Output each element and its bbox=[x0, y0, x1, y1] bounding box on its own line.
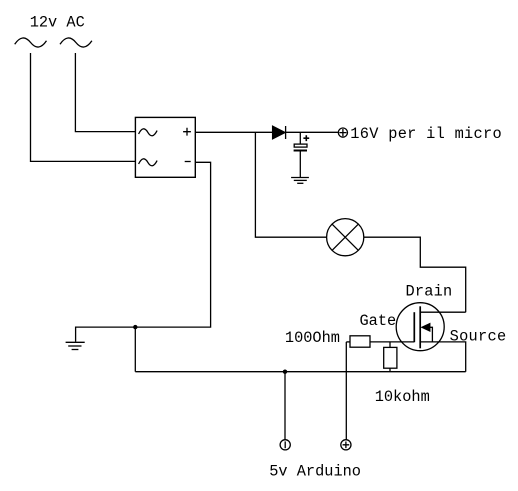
ground (left) bbox=[66, 342, 85, 349]
wire AC1 to bridge lower input bbox=[31, 53, 136, 161]
node 16V circled plus bbox=[338, 128, 347, 137]
junction dot bottom rail bbox=[283, 370, 287, 374]
junction dot ground rail bbox=[133, 325, 137, 329]
label 16V per il micro bbox=[350, 125, 502, 143]
bridge rectifier BR1 bbox=[135, 117, 195, 177]
label 10kohm bbox=[375, 388, 430, 406]
wire bottom rail bbox=[135, 371, 465, 373]
wire junction down to 5v ground pin bbox=[284, 372, 286, 440]
wire diode to 16V node bbox=[286, 131, 339, 133]
svg-text:5v Arduino: 5v Arduino bbox=[269, 463, 361, 481]
node 5v plus pin bbox=[341, 440, 351, 450]
lamp LA1 bbox=[327, 219, 364, 256]
label Drain bbox=[406, 283, 453, 301]
svg-text:Source: Source bbox=[450, 328, 507, 346]
svg-text:12v AC: 12v AC bbox=[30, 13, 85, 31]
diode D1 bbox=[273, 126, 286, 139]
node 5v ground pin bbox=[280, 440, 290, 450]
ground (capacitor) bbox=[291, 178, 309, 184]
label Gate bbox=[360, 312, 397, 330]
wire AC2 to bridge upper input bbox=[75, 53, 135, 132]
svg-text:Gate: Gate bbox=[360, 312, 397, 330]
svg-text:Drain: Drain bbox=[406, 283, 453, 301]
wire bridge + output to diode bbox=[195, 131, 272, 133]
resistor R1 100Ohm bbox=[346, 336, 414, 347]
wire 100Ohm left down to 5v+ bbox=[345, 342, 347, 440]
MOSFET Q1 bbox=[396, 303, 466, 372]
wire lamp to drain bbox=[364, 237, 466, 312]
AC source 1 bbox=[15, 38, 47, 47]
wire branch down to lamp bbox=[255, 132, 326, 237]
resistor R2 10kohm bbox=[384, 342, 397, 372]
capacitor C1 bbox=[294, 132, 310, 177]
wire bridge - output down and left to ground bbox=[76, 162, 211, 341]
label 12v AC bbox=[30, 13, 85, 31]
wire junction down to bottom rail bbox=[134, 327, 136, 372]
label 5v Arduino bbox=[269, 463, 361, 481]
label Source bbox=[450, 328, 507, 346]
svg-text:10kohm: 10kohm bbox=[375, 388, 430, 406]
label 100Ohm bbox=[285, 329, 340, 347]
svg-text:16V per il micro: 16V per il micro bbox=[350, 125, 502, 143]
AC source 2 bbox=[60, 38, 92, 47]
svg-text:100Ohm: 100Ohm bbox=[285, 329, 340, 347]
